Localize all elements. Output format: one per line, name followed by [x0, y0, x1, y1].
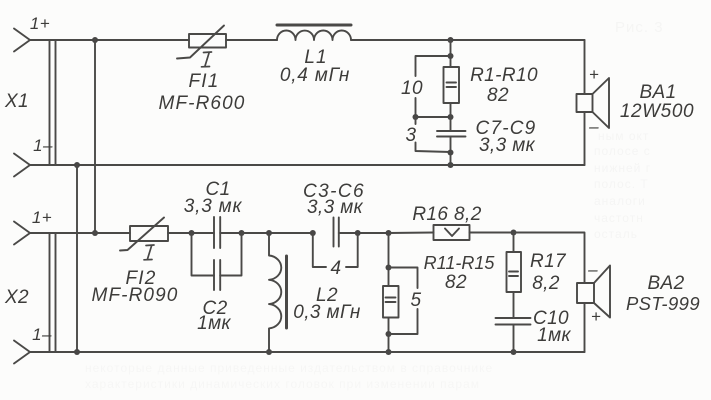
- connector X1 pin 1+ arrow: [14, 29, 30, 52]
- svg-text:1мк: 1мк: [537, 325, 571, 346]
- svg-text:Рис. 3: Рис. 3: [615, 19, 664, 36]
- wire BA2 to bottom: [584, 303, 586, 352]
- svg-text:1+: 1+: [32, 208, 52, 227]
- svg-text:–: –: [587, 260, 598, 279]
- svg-text:1+: 1+: [30, 14, 50, 33]
- svg-text:частотн: частотн: [594, 211, 644, 225]
- svg-text:характеристики динамических го: характеристики динамических головок при …: [85, 377, 480, 391]
- wire bracket "5": [389, 268, 418, 335]
- wire R17 to C10: [513, 292, 515, 318]
- svg-text:0,3 мГн: 0,3 мГн: [293, 302, 361, 323]
- svg-text:8,2: 8,2: [532, 273, 560, 294]
- node C3-C6 left: [310, 230, 316, 236]
- wire below C7-C9: [450, 137, 452, 166]
- svg-text:полосе с: полосе с: [594, 144, 651, 158]
- svg-text:MF-R090: MF-R090: [92, 285, 179, 306]
- svg-text:осталь: осталь: [594, 227, 638, 241]
- svg-text:полос. Т: полос. Т: [594, 177, 649, 191]
- wire bottom return of lower circuit: [30, 351, 585, 353]
- svg-text:82: 82: [445, 272, 467, 293]
- svg-text:10: 10: [401, 78, 423, 99]
- capacitor C1 3,3 мк: [214, 217, 220, 248]
- node bracket stub top: [448, 53, 454, 59]
- node on 1- wire: [74, 162, 80, 168]
- node C10 bottom: [511, 349, 517, 355]
- ghost show-through text top right: [594, 19, 664, 241]
- capacitor C2 1 мк: [214, 260, 220, 290]
- node junction X1+: [92, 37, 98, 43]
- wire R11 branch lower: [388, 318, 390, 353]
- connector X2 body (double lines): [50, 233, 56, 352]
- node bracket 5 top: [386, 265, 392, 271]
- ghost show-through text bottom: [85, 361, 493, 391]
- wire to L2 node: [242, 232, 313, 234]
- svg-text:+: +: [589, 65, 599, 84]
- node C1 right: [239, 230, 245, 236]
- svg-text:аналоги: аналоги: [594, 194, 646, 208]
- wire BA1 to bottom: [584, 112, 586, 165]
- resistor R1-R10 82: [444, 67, 460, 103]
- wire X1+ down to X2+: [94, 40, 96, 233]
- connector X1 body (double lines): [50, 40, 56, 165]
- wire R16 to R17 node: [470, 232, 514, 234]
- wire X1 1+ to FI1: [30, 39, 189, 41]
- label I of FI2: [144, 245, 154, 260]
- node R11-R15 branch top: [386, 230, 392, 236]
- svg-text:82: 82: [487, 85, 509, 106]
- svg-text:R17: R17: [530, 251, 567, 272]
- speaker BA1 12W500: [577, 78, 610, 128]
- svg-text:X1: X1: [4, 91, 29, 112]
- svg-text:–: –: [588, 117, 599, 136]
- wire bracket stub "10" top: [416, 56, 451, 76]
- wire bracket "4": [313, 233, 358, 267]
- wire C1 right: [220, 232, 241, 234]
- node L2 top: [266, 230, 272, 236]
- svg-text:R11-R15: R11-R15: [424, 253, 496, 273]
- wire FI2 to C1 node: [168, 232, 214, 234]
- wire R17 branch upper: [513, 233, 515, 253]
- wire C3-C6 right: [339, 232, 389, 234]
- svg-text:4: 4: [331, 258, 342, 279]
- svg-text:5: 5: [411, 290, 422, 311]
- svg-text:PST-999: PST-999: [626, 293, 700, 314]
- wire X2 1+ to FI2: [30, 232, 130, 234]
- wire C2 parallel loop left: [192, 233, 215, 276]
- wire right side down to BA1: [584, 40, 586, 94]
- inductor L2 0,3 мГн: [269, 233, 287, 352]
- node below R1-R10: [448, 114, 454, 120]
- speaker BA2 PST-999: [577, 266, 610, 318]
- wire bottom return of top circuit: [30, 164, 585, 166]
- wire node to R16: [389, 232, 434, 235]
- node L2 bottom: [266, 349, 272, 355]
- wire bracket "10" bottom part: [416, 98, 451, 117]
- svg-text:3,3 мк: 3,3 мк: [184, 196, 243, 217]
- wire R to C segment: [450, 103, 452, 131]
- node X2- junction: [74, 349, 80, 355]
- wire C2 parallel loop right: [220, 233, 241, 276]
- capacitor C7-C9 3,3 мк: [437, 131, 466, 137]
- svg-text:R16 8,2: R16 8,2: [412, 204, 481, 225]
- node junction on X2+ wire: [92, 230, 98, 236]
- connector X1 pin 1- arrow: [14, 154, 30, 177]
- node bracket 5 bottom: [386, 331, 392, 337]
- resistor R17 8,2: [507, 252, 522, 292]
- svg-text:1–: 1–: [33, 136, 53, 155]
- label I of FI1: [202, 52, 212, 67]
- svg-text:MF-R600: MF-R600: [159, 93, 246, 114]
- node branch bottom on return wire: [448, 162, 454, 168]
- svg-text:+: +: [591, 307, 601, 326]
- capacitor C3-C6 3,3 мк: [334, 218, 339, 247]
- capacitor C10 1 мк: [496, 318, 531, 325]
- wire C10 to bottom: [513, 325, 515, 353]
- node R17 branch top: [511, 230, 517, 236]
- wire branch top segment: [450, 40, 452, 67]
- svg-text:R1-R10: R1-R10: [470, 65, 538, 86]
- svg-text:некоторые данные приведенные и: некоторые данные приведенные издательств…: [85, 361, 493, 375]
- svg-text:X2: X2: [4, 287, 29, 308]
- wire L1 to speaker branch: [351, 39, 585, 41]
- node R11 branch on bottom wire: [386, 349, 392, 355]
- connector X2 pin 1- arrow: [14, 341, 30, 364]
- wire bracket "3": [416, 117, 451, 152]
- resistor R16 8,2: [434, 225, 470, 240]
- svg-text:1–: 1–: [32, 325, 52, 344]
- inductor L1 0,4 мГн: [277, 25, 351, 40]
- node top of R1-R10 branch: [448, 37, 454, 43]
- node bracket 3 bottom: [448, 150, 454, 156]
- wire FI1 to L1: [226, 39, 277, 41]
- connector X2 pin 1+ arrow: [14, 222, 30, 245]
- svg-text:FI1: FI1: [188, 71, 219, 92]
- fuse FI1 MF-R600 (polyswitch): [177, 26, 226, 59]
- fuse FI2 MF-R090 (polyswitch): [120, 218, 168, 251]
- wire X1- down to X2-: [76, 165, 78, 352]
- svg-text:3,3 мк: 3,3 мк: [479, 135, 536, 156]
- node bracket left bottom: [413, 114, 419, 120]
- node C3-C6 right: [355, 230, 361, 236]
- svg-text:12W500: 12W500: [620, 101, 694, 122]
- svg-text:3: 3: [406, 125, 417, 146]
- node C1 left: [189, 230, 195, 236]
- svg-text:0,4 мГн: 0,4 мГн: [280, 65, 350, 86]
- svg-text:BA2: BA2: [647, 273, 684, 294]
- svg-text:BA1: BA1: [639, 82, 676, 103]
- svg-text:нижней г: нижней г: [594, 161, 651, 175]
- resistor R11-R15 82: [383, 286, 399, 318]
- wire to BA2: [514, 233, 585, 284]
- svg-text:ным окт: ным окт: [598, 129, 649, 143]
- wire R11 branch upper: [388, 233, 390, 286]
- svg-text:3,3 мк: 3,3 мк: [307, 197, 364, 218]
- svg-text:1мк: 1мк: [197, 313, 231, 334]
